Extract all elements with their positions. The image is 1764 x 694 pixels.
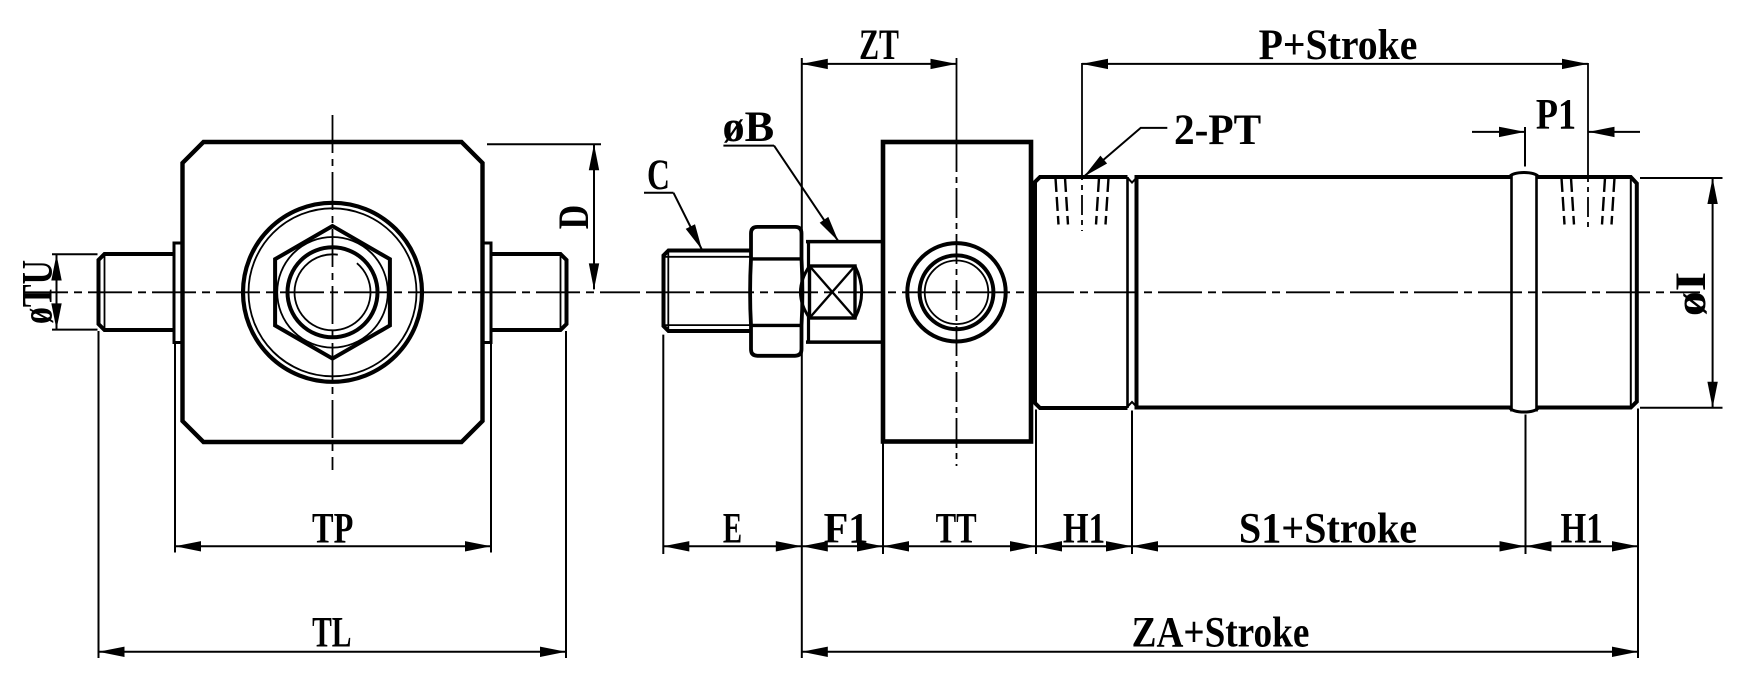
svg-text:E: E [723, 503, 742, 551]
svg-text:F1: F1 [824, 505, 869, 553]
svg-text:H1: H1 [1560, 505, 1602, 552]
svg-text:P1: P1 [1536, 90, 1576, 139]
svg-text:S1+Stroke: S1+Stroke [1239, 505, 1417, 553]
svg-text:TT: TT [936, 504, 977, 552]
svg-text:TP: TP [312, 505, 353, 553]
svg-text:ZT: ZT [859, 22, 899, 70]
svg-text:C: C [647, 151, 670, 199]
svg-text:TL: TL [312, 609, 351, 657]
svg-text:ZA+Stroke: ZA+Stroke [1132, 608, 1310, 656]
svg-text:H1: H1 [1063, 505, 1105, 552]
svg-text:P+Stroke: P+Stroke [1259, 21, 1418, 69]
svg-text:øI: øI [1667, 272, 1715, 316]
svg-text:øTU: øTU [14, 260, 62, 324]
svg-text:øB: øB [722, 103, 774, 150]
svg-text:2-PT: 2-PT [1174, 106, 1261, 154]
svg-text:D: D [550, 205, 598, 229]
